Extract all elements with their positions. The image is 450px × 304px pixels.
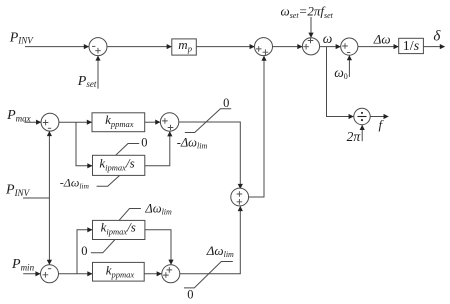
svg-text:Δωlim: Δωlim	[206, 243, 234, 259]
svg-text:f: f	[379, 117, 385, 132]
svg-text:ω0: ω0	[334, 65, 348, 81]
svg-text:δ: δ	[433, 29, 441, 45]
svg-text:-Δωlim: -Δωlim	[60, 175, 90, 190]
svg-text:0: 0	[141, 136, 147, 150]
svg-text:Pmax: Pmax	[6, 108, 31, 123]
svg-text:Δωlim: Δωlim	[144, 202, 172, 217]
svg-text:ω: ω	[323, 31, 333, 46]
svg-text:2π: 2π	[347, 129, 362, 144]
svg-text:PINV: PINV	[9, 30, 35, 45]
svg-text:1/s: 1/s	[403, 39, 420, 54]
svg-text:Pset: Pset	[77, 74, 97, 89]
svg-text:Pmin: Pmin	[11, 257, 35, 272]
svg-text:-Δωlim: -Δωlim	[177, 136, 208, 151]
svg-text:0: 0	[223, 96, 229, 110]
svg-text:0: 0	[81, 244, 87, 258]
svg-text:PINV: PINV	[5, 182, 31, 197]
svg-text:Δω: Δω	[373, 32, 391, 47]
svg-text:0: 0	[187, 288, 193, 302]
svg-text:ωset=2πfset: ωset=2πfset	[281, 4, 334, 20]
